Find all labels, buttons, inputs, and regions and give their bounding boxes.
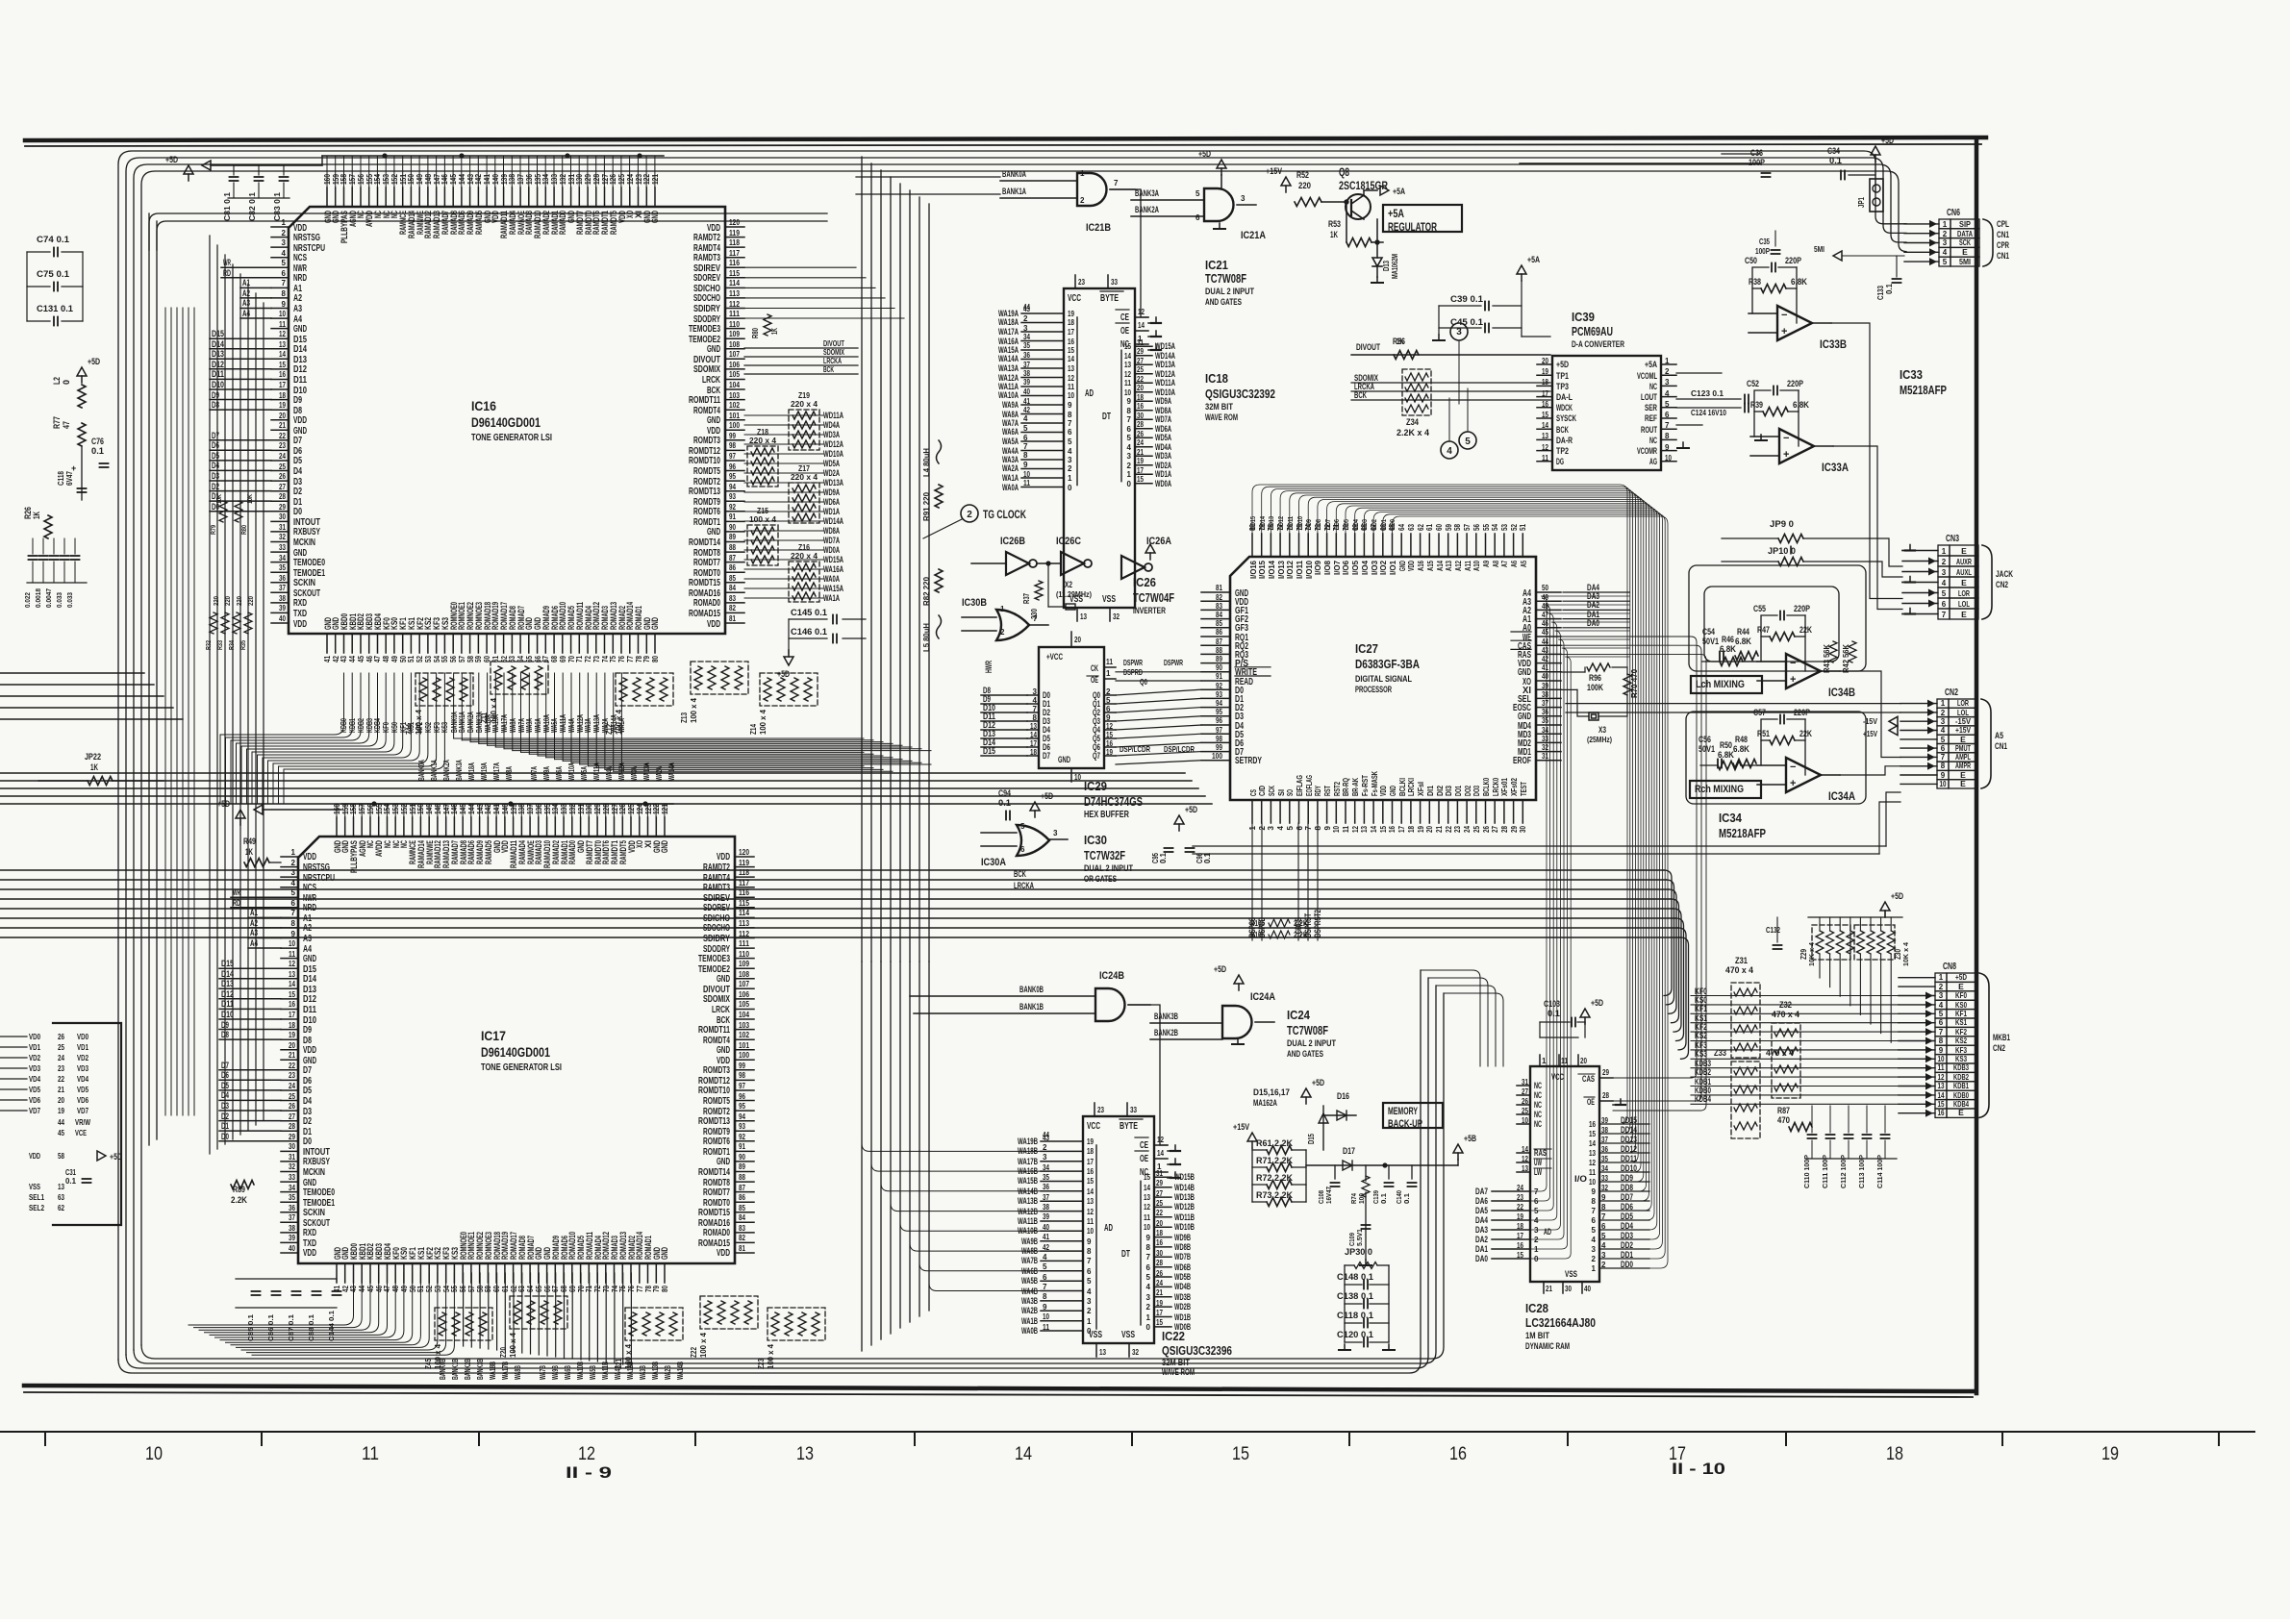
svg-text:7: 7 (1601, 1212, 1606, 1221)
svg-text:R37: R37 (1022, 593, 1031, 604)
svg-text:19: 19 (58, 1107, 64, 1115)
svg-text:R79: R79 (211, 525, 217, 535)
svg-text:R72 2.2K: R72 2.2K (1256, 1173, 1293, 1183)
svg-text:WA4A: WA4A (567, 718, 576, 733)
svg-text:GND: GND (650, 211, 660, 223)
svg-text:NRD: NRD (293, 273, 307, 284)
svg-text:BCK: BCK (1014, 869, 1026, 879)
svg-text:17: 17 (279, 381, 286, 389)
svg-text:63: 63 (58, 1193, 64, 1202)
svg-text:+5A: +5A (1527, 255, 1540, 264)
svg-text:WA13A: WA13A (592, 714, 601, 733)
svg-text:10: 10 (1332, 826, 1341, 833)
svg-text:29: 29 (1156, 1179, 1163, 1187)
svg-text:VDD: VDD (293, 619, 307, 630)
svg-text:144: 144 (458, 174, 466, 185)
svg-text:96: 96 (739, 1092, 745, 1101)
svg-text:9: 9 (1146, 1234, 1151, 1242)
svg-text:BANK3A: BANK3A (1135, 188, 1159, 198)
svg-text:10: 10 (1938, 1055, 1945, 1063)
svg-text:37: 37 (289, 1213, 295, 1222)
svg-text:39: 39 (1043, 1212, 1049, 1221)
svg-text:WD15A: WD15A (1155, 341, 1175, 351)
svg-text:NCS: NCS (293, 253, 307, 263)
svg-text:WD5A: WD5A (823, 459, 840, 468)
svg-text:1: 1 (1127, 470, 1132, 479)
svg-text:SCKIN: SCKIN (303, 1208, 325, 1218)
svg-text:−: − (1790, 762, 1796, 773)
svg-text:101: 101 (729, 412, 740, 420)
svg-text:WA15B: WA15B (1018, 1176, 1038, 1186)
svg-text:CN8: CN8 (1943, 962, 1956, 972)
svg-text:WA2A: WA2A (1002, 463, 1019, 473)
svg-text:7: 7 (1087, 1257, 1092, 1265)
svg-text:2: 2 (1939, 983, 1944, 991)
svg-text:14: 14 (1589, 1139, 1596, 1148)
svg-text:DD2: DD2 (1370, 519, 1378, 530)
svg-text:WA3B: WA3B (639, 1365, 647, 1380)
svg-text:CN2: CN2 (1996, 580, 2008, 590)
svg-text:2: 2 (1943, 230, 1948, 238)
svg-text:C148 0.1: C148 0.1 (1337, 1272, 1373, 1282)
svg-text:9: 9 (1068, 401, 1072, 410)
svg-text:3: 3 (1665, 378, 1670, 387)
svg-text:107: 107 (729, 350, 740, 359)
svg-text:DI3: DI3 (1445, 786, 1453, 796)
svg-text:JP1: JP1 (1857, 197, 1866, 208)
svg-text:VCOMR: VCOMR (1637, 446, 1657, 456)
svg-text:MA162A: MA162A (1253, 1098, 1277, 1108)
svg-text:6: 6 (1601, 1222, 1606, 1231)
svg-text:106: 106 (739, 990, 749, 999)
svg-text:VD5: VD5 (77, 1085, 88, 1094)
svg-text:+: + (1790, 778, 1796, 789)
svg-text:L2: L2 (52, 377, 62, 385)
svg-text:220: 220 (225, 596, 232, 606)
svg-text:13: 13 (58, 1183, 64, 1191)
svg-text:12: 12 (1938, 1073, 1945, 1082)
svg-text:55: 55 (450, 1286, 459, 1292)
svg-text:129: 129 (593, 804, 602, 814)
svg-text:DD12: DD12 (1621, 1144, 1637, 1154)
svg-text:D7: D7 (212, 431, 219, 440)
svg-text:14: 14 (1068, 355, 1074, 363)
svg-text:WA13B: WA13B (651, 1362, 660, 1380)
svg-text:NC: NC (1649, 436, 1657, 445)
svg-text:RAMDT3: RAMDT3 (693, 253, 720, 263)
svg-text:27: 27 (1137, 357, 1144, 365)
svg-text:4: 4 (1033, 696, 1038, 705)
svg-text:RXBUSY: RXBUSY (303, 1157, 330, 1167)
svg-text:16: 16 (1106, 739, 1113, 748)
svg-text:220P: 220P (1794, 604, 1810, 613)
svg-text:D10: D10 (221, 1010, 234, 1019)
svg-text:35: 35 (1601, 1155, 1608, 1163)
svg-text:RST2: RST2 (1333, 782, 1342, 796)
svg-text:D1: D1 (221, 1121, 229, 1131)
svg-text:16: 16 (1068, 337, 1074, 346)
svg-text:48: 48 (391, 1286, 400, 1292)
svg-text:D11: D11 (303, 1005, 316, 1015)
svg-text:10: 10 (1665, 454, 1672, 462)
svg-text:ROMDT10: ROMDT10 (689, 456, 720, 466)
svg-text:Z12: Z12 (605, 724, 614, 735)
svg-text:10: 10 (1068, 391, 1074, 400)
svg-text:3: 3 (1534, 1226, 1539, 1235)
svg-text:DD6: DD6 (1332, 519, 1341, 530)
svg-text:45: 45 (366, 1286, 375, 1292)
svg-text:36: 36 (1601, 1145, 1608, 1154)
svg-text:154: 154 (373, 174, 382, 185)
svg-text:154: 154 (383, 804, 391, 814)
svg-text:69: 69 (568, 1286, 577, 1292)
svg-text:17: 17 (1517, 1232, 1523, 1240)
svg-text:130: 130 (575, 174, 584, 185)
svg-text:47: 47 (1542, 611, 1548, 619)
svg-text:ROMDT6: ROMDT6 (703, 1137, 730, 1147)
svg-text:WA10A: WA10A (567, 762, 576, 781)
svg-text:110: 110 (739, 950, 749, 959)
svg-text:BANK3B: BANK3B (1154, 1012, 1178, 1021)
svg-text:WD0A: WD0A (823, 545, 840, 555)
svg-text:19: 19 (1087, 1137, 1094, 1146)
svg-text:10: 10 (1940, 780, 1947, 788)
svg-text:8: 8 (1601, 1203, 1606, 1212)
svg-text:98: 98 (1216, 735, 1222, 743)
svg-text:TEMODE0: TEMODE0 (293, 558, 325, 568)
svg-text:ROMDT13: ROMDT13 (698, 1116, 730, 1127)
svg-text:40: 40 (279, 614, 286, 623)
svg-text:VD0: VD0 (77, 1032, 88, 1041)
svg-text:+5A: +5A (1393, 187, 1405, 196)
svg-text:0.033: 0.033 (57, 592, 63, 608)
svg-text:DD9: DD9 (1304, 519, 1313, 530)
svg-text:34: 34 (1043, 1163, 1049, 1172)
svg-text:12: 12 (1106, 722, 1113, 731)
svg-text:6: 6 (1195, 213, 1200, 222)
svg-text:WD3B: WD3B (1174, 1292, 1191, 1302)
svg-text:I/O6: I/O6 (1342, 560, 1350, 575)
svg-text:44: 44 (58, 1118, 64, 1127)
svg-text:A5: A5 (1995, 731, 2004, 741)
svg-text:2: 2 (1941, 709, 1946, 717)
svg-text:1: 1 (1939, 973, 1944, 982)
svg-text:158: 158 (340, 174, 348, 185)
svg-text:8: 8 (1087, 1247, 1092, 1256)
svg-text:D6383GF-3BA: D6383GF-3BA (1355, 657, 1420, 671)
svg-text:35: 35 (1043, 1173, 1049, 1182)
svg-text:VSS: VSS (1102, 594, 1116, 605)
svg-text:3: 3 (1941, 717, 1946, 726)
svg-text:DD10: DD10 (1296, 516, 1304, 530)
svg-text:8: 8 (1592, 1197, 1597, 1206)
svg-text:WA19B: WA19B (1018, 1137, 1038, 1146)
svg-text:17: 17 (1087, 1158, 1094, 1166)
svg-text:64: 64 (516, 656, 525, 662)
svg-text:13: 13 (1068, 364, 1074, 373)
svg-text:24: 24 (1137, 438, 1144, 447)
svg-text:36: 36 (1043, 1183, 1049, 1191)
svg-text:KDB3: KDB3 (1953, 1062, 1969, 1072)
svg-text:100P: 100P (1749, 158, 1765, 167)
svg-text:R35: R35 (240, 640, 247, 650)
svg-text:KDB1: KDB1 (348, 718, 357, 733)
svg-text:49: 49 (390, 656, 399, 662)
svg-text:19: 19 (1068, 310, 1074, 318)
svg-text:D4: D4 (212, 461, 219, 470)
svg-text:117: 117 (739, 879, 749, 887)
svg-text:WA15A: WA15A (823, 584, 843, 593)
svg-text:28: 28 (279, 492, 286, 501)
svg-text:43: 43 (1542, 646, 1548, 655)
svg-text:25: 25 (1137, 365, 1144, 374)
svg-text:7: 7 (1043, 1283, 1047, 1291)
svg-text:WD13A: WD13A (1155, 360, 1175, 369)
svg-text:RAMDT3: RAMDT3 (703, 883, 730, 893)
svg-text:24: 24 (1517, 1184, 1523, 1192)
svg-text:I/O16: I/O16 (1249, 560, 1258, 579)
svg-text:27: 27 (1156, 1189, 1163, 1198)
svg-text:KS2: KS2 (1695, 1031, 1707, 1040)
svg-text:DD4: DD4 (1621, 1221, 1633, 1231)
svg-text:32: 32 (279, 533, 286, 541)
svg-text:60: 60 (483, 656, 491, 662)
svg-text:Z31: Z31 (1735, 956, 1748, 965)
svg-text:VD3: VD3 (29, 1063, 40, 1073)
svg-text:LRCKI: LRCKI (1407, 778, 1416, 796)
svg-text:WA1A: WA1A (1002, 473, 1019, 483)
svg-text:I/O15: I/O15 (1258, 560, 1267, 579)
svg-text:15: 15 (1938, 1100, 1945, 1109)
svg-text:VDD: VDD (717, 1248, 730, 1259)
svg-text:51: 51 (1519, 524, 1527, 531)
svg-text:GND: GND (717, 1045, 730, 1056)
svg-text:C113 100P: C113 100P (1857, 1155, 1866, 1188)
svg-text:A3: A3 (303, 934, 312, 944)
svg-text:+5D: +5D (1591, 998, 1603, 1008)
svg-text:21: 21 (58, 1086, 64, 1094)
svg-text:0: 0 (1068, 484, 1072, 492)
svg-text:102: 102 (739, 1031, 749, 1039)
svg-text:KF0: KF0 (1955, 990, 1967, 1000)
svg-text:0.1: 0.1 (1159, 852, 1168, 863)
svg-text:8: 8 (1043, 1292, 1047, 1301)
svg-text:+5D: +5D (110, 1152, 122, 1162)
svg-text:30: 30 (279, 512, 286, 521)
svg-text:X3: X3 (1598, 725, 1606, 735)
svg-text:17: 17 (1030, 739, 1037, 748)
svg-text:LOR: LOR (1958, 588, 1970, 598)
svg-text:C110 100P: C110 100P (1802, 1155, 1811, 1188)
svg-text:LC321664AJ80: LC321664AJ80 (1525, 1315, 1596, 1330)
svg-text:CN3: CN3 (1946, 534, 1959, 544)
svg-text:Fs-MASK: Fs-MASK (1371, 771, 1379, 796)
svg-text:ROMDT10: ROMDT10 (698, 1086, 730, 1096)
svg-text:C103: C103 (1544, 999, 1560, 1009)
svg-text:134: 134 (541, 174, 550, 185)
svg-text:72: 72 (593, 1286, 602, 1292)
svg-text:II - 10: II - 10 (1672, 1460, 1725, 1478)
svg-text:31: 31 (1522, 1078, 1528, 1087)
svg-text:BANK1B: BANK1B (451, 1359, 460, 1380)
svg-text:D17: D17 (1343, 1146, 1355, 1156)
svg-text:32: 32 (1113, 612, 1120, 621)
svg-text:156: 156 (357, 174, 365, 185)
svg-text:WD6B: WD6B (1174, 1262, 1191, 1272)
svg-text:D7: D7 (303, 1065, 312, 1076)
svg-text:1: 1 (1146, 1313, 1151, 1322)
svg-text:54: 54 (1491, 524, 1499, 531)
svg-text:31: 31 (279, 523, 286, 532)
svg-text:WD1B: WD1B (1174, 1312, 1191, 1322)
svg-text:91: 91 (729, 512, 736, 521)
svg-text:5: 5 (1146, 1273, 1151, 1282)
svg-text:D4: D4 (303, 1096, 312, 1107)
svg-text:R51: R51 (1757, 729, 1770, 738)
svg-text:17: 17 (289, 1011, 295, 1019)
svg-text:R87: R87 (1777, 1106, 1790, 1115)
svg-text:1M BIT: 1M BIT (1525, 1331, 1549, 1340)
svg-text:DSPWR: DSPWR (1164, 658, 1183, 667)
svg-text:6: 6 (291, 899, 296, 908)
svg-text:IC34: IC34 (1719, 811, 1743, 825)
svg-text:110: 110 (729, 320, 740, 329)
svg-text:WA16B: WA16B (1018, 1166, 1038, 1176)
svg-text:19: 19 (1137, 457, 1144, 465)
svg-text:WA4A: WA4A (605, 766, 614, 781)
svg-text:99: 99 (729, 432, 736, 440)
svg-text:26: 26 (1522, 1097, 1528, 1106)
svg-text:DI1: DI1 (1426, 786, 1435, 796)
svg-text:2: 2 (967, 510, 972, 520)
svg-text:18: 18 (1087, 1147, 1094, 1156)
svg-text:DD15: DD15 (1248, 516, 1257, 530)
svg-text:+: + (1781, 326, 1787, 337)
svg-text:CN2: CN2 (1993, 1043, 2005, 1054)
svg-text:132: 132 (568, 804, 577, 814)
svg-text:1: 1 (282, 218, 287, 227)
svg-text:20: 20 (1542, 357, 1548, 365)
svg-text:6: 6 (1068, 428, 1072, 437)
svg-text:130: 130 (585, 804, 593, 814)
svg-text:HEX BUFFER: HEX BUFFER (1084, 810, 1130, 820)
svg-text:58: 58 (58, 1152, 64, 1161)
svg-text:WA17B: WA17B (501, 1362, 510, 1380)
svg-text:39: 39 (289, 1234, 295, 1242)
svg-text:CE: CE (1140, 1140, 1148, 1151)
svg-text:6: 6 (1296, 825, 1304, 830)
svg-text:146: 146 (440, 174, 449, 185)
svg-text:4: 4 (1939, 1001, 1944, 1010)
svg-text:R96: R96 (1589, 673, 1601, 683)
svg-text:KDB0: KDB0 (340, 718, 348, 733)
svg-text:HWR: HWR (984, 661, 994, 673)
svg-text:116: 116 (739, 888, 749, 897)
svg-text:9: 9 (291, 930, 296, 938)
svg-text:C52: C52 (1747, 379, 1759, 388)
svg-text:WA12B: WA12B (1018, 1207, 1038, 1216)
svg-text:I/O7: I/O7 (1333, 560, 1342, 575)
svg-text:LRCK: LRCK (702, 375, 721, 386)
svg-text:TP1: TP1 (1556, 371, 1569, 381)
svg-text:36: 36 (289, 1204, 295, 1212)
svg-text:10: 10 (1087, 1227, 1094, 1236)
svg-text:31: 31 (1542, 752, 1548, 761)
svg-text:62: 62 (1417, 524, 1425, 531)
svg-text:+15V: +15V (1266, 166, 1282, 176)
svg-text:13: 13 (1542, 432, 1548, 440)
svg-text:12: 12 (1351, 826, 1360, 833)
svg-text:97: 97 (739, 1082, 745, 1090)
svg-text:136: 136 (525, 174, 534, 185)
svg-text:WA17A: WA17A (500, 714, 509, 733)
svg-text:75: 75 (618, 1286, 627, 1292)
svg-text:D3: D3 (212, 471, 219, 481)
svg-text:D12: D12 (293, 364, 307, 375)
svg-text:WA16A: WA16A (823, 564, 843, 574)
svg-text:40: 40 (1023, 387, 1030, 396)
svg-text:+5D: +5D (1312, 1078, 1324, 1087)
svg-text:3: 3 (1267, 825, 1275, 830)
svg-text:88: 88 (1216, 646, 1222, 655)
svg-text:WA8A: WA8A (509, 718, 517, 733)
svg-text:3: 3 (1942, 568, 1947, 577)
svg-text:SEL1: SEL1 (29, 1192, 44, 1202)
svg-text:WA8B: WA8B (514, 1365, 522, 1380)
svg-text:D5: D5 (221, 1081, 229, 1090)
svg-text:24: 24 (1463, 826, 1472, 833)
svg-text:7: 7 (1033, 705, 1038, 713)
svg-text:AND GATES: AND GATES (1205, 297, 1242, 307)
svg-text:DUAL 2 INPUT: DUAL 2 INPUT (1205, 287, 1254, 296)
svg-text:VD2: VD2 (29, 1053, 40, 1062)
svg-text:WD0A: WD0A (1155, 479, 1171, 488)
svg-text:7: 7 (291, 909, 296, 917)
svg-text:31: 31 (289, 1153, 295, 1162)
svg-text:TC7W08F: TC7W08F (1205, 271, 1246, 286)
svg-text:C132: C132 (1766, 926, 1780, 935)
svg-text:RST: RST (1323, 786, 1332, 796)
svg-text:220 x 4: 220 x 4 (791, 399, 818, 409)
svg-text:WA4B: WA4B (1021, 1287, 1038, 1296)
svg-text:27: 27 (279, 483, 286, 491)
svg-text:DD1: DD1 (1621, 1250, 1633, 1260)
svg-text:3: 3 (1939, 991, 1944, 1000)
svg-text:VD7: VD7 (29, 1106, 40, 1115)
svg-text:VSS: VSS (1089, 1330, 1102, 1340)
svg-text:8: 8 (1314, 825, 1322, 830)
svg-text:WA7A: WA7A (530, 766, 539, 781)
svg-text:DD2: DD2 (1621, 1240, 1633, 1250)
svg-text:5: 5 (1942, 589, 1947, 598)
svg-text:25: 25 (1522, 1107, 1528, 1115)
svg-text:90: 90 (739, 1153, 745, 1162)
svg-text:WA14B: WA14B (676, 1362, 685, 1380)
svg-text:VDD: VDD (303, 1248, 316, 1259)
svg-text:A4: A4 (242, 309, 250, 318)
svg-text:NC: NC (1534, 1090, 1542, 1100)
svg-text:16: 16 (1156, 1238, 1163, 1247)
svg-text:7: 7 (1939, 1028, 1944, 1037)
svg-text:140: 140 (491, 174, 500, 185)
svg-text:R43 56K: R43 56K (1823, 644, 1831, 673)
svg-text:11: 11 (1589, 1168, 1596, 1177)
svg-text:8: 8 (1068, 411, 1072, 419)
svg-text:C54: C54 (1702, 627, 1715, 637)
svg-text:KDB1: KDB1 (1953, 1081, 1969, 1090)
svg-text:220: 220 (248, 596, 255, 606)
svg-text:WD2A: WD2A (823, 468, 840, 478)
